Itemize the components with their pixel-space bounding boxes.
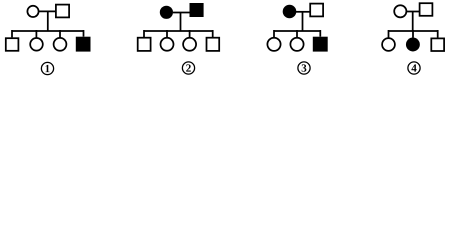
pedigree 2 mother I-1 (affected female filled circle): [160, 6, 173, 19]
wire descent line pedigree 2: [180, 13, 182, 32]
pedigree 3 mother I-1 (affected female filled circle): [283, 5, 297, 19]
label circled 2: [182, 62, 194, 74]
pedigree 2 child II-2 (unaffected female circle): [161, 38, 174, 51]
wire sibship bar pedigree 3: [274, 30, 320, 32]
pedigree 3 child II-3 (affected male filled square): [313, 37, 328, 52]
pedigree 1 child II-3 (unaffected female circle): [54, 38, 67, 51]
label circled 3: [298, 62, 310, 74]
wire child tick 1.2: [35, 30, 37, 38]
wire child tick 4.1: [388, 30, 390, 38]
pedigree 1 father I-2 (unaffected male square): [56, 5, 69, 18]
wire couple line pedigree 3: [296, 11, 310, 13]
wire child tick 1.1: [11, 30, 13, 37]
wire child tick 3.1: [273, 30, 275, 38]
wire child tick 4.3: [437, 30, 439, 38]
label circled 1: [41, 62, 53, 74]
wire child tick 2.2: [166, 30, 168, 38]
label circled 4: [408, 62, 420, 74]
wire child tick 3.3: [319, 30, 321, 37]
pedigree 4 child II-1 (unaffected female circle): [382, 38, 395, 51]
pedigree 1 child II-1 (unaffected male square): [6, 38, 19, 51]
pedigree 4 mother I-1 (unaffected female circle): [394, 5, 406, 17]
wire couple line pedigree 1: [39, 10, 56, 12]
pedigree 1 child II-4 (affected male filled square): [76, 37, 91, 52]
wire descent line pedigree 1: [47, 12, 49, 32]
pedigree 2 child II-4 (unaffected male square): [207, 38, 220, 51]
pedigree 1 mother I-1 (unaffected female circle): [27, 6, 38, 17]
wire couple line pedigree 4: [406, 11, 419, 13]
wire child tick 3.2: [296, 30, 298, 38]
pedigree 4 child II-3 (unaffected male square): [431, 38, 444, 51]
wire sibship bar pedigree 2: [144, 30, 213, 32]
wire child tick 2.1: [143, 30, 145, 37]
pedigree 2 father I-2 (affected male filled square): [190, 3, 204, 17]
pedigree 2 child II-3 (unaffected female circle): [183, 38, 196, 51]
pedigree 3 child II-2 (unaffected female circle): [290, 38, 303, 51]
wire child tick 2.4: [212, 30, 214, 37]
wire child tick 4.2: [412, 30, 414, 38]
wire sibship bar pedigree 4: [389, 30, 438, 32]
wire child tick 1.4: [83, 30, 85, 37]
wire child tick 1.3: [59, 30, 61, 38]
wire sibship bar pedigree 1: [12, 30, 84, 32]
pedigree 2 child II-1 (unaffected male square): [138, 38, 151, 51]
wire child tick 2.3: [189, 30, 191, 38]
pedigree 4 child II-2 (affected female filled circle): [406, 38, 420, 52]
pedigree 1 child II-2 (unaffected female circle): [30, 38, 43, 51]
pedigree 3 child II-1 (unaffected female circle): [267, 38, 280, 51]
wire descent line pedigree 4: [412, 12, 414, 32]
wire descent line pedigree 3: [302, 12, 304, 31]
wire couple line pedigree 2: [173, 12, 190, 14]
pedigree 3 father I-2 (unaffected male square): [310, 4, 323, 17]
pedigree 4 father I-2 (unaffected male square): [420, 3, 433, 16]
